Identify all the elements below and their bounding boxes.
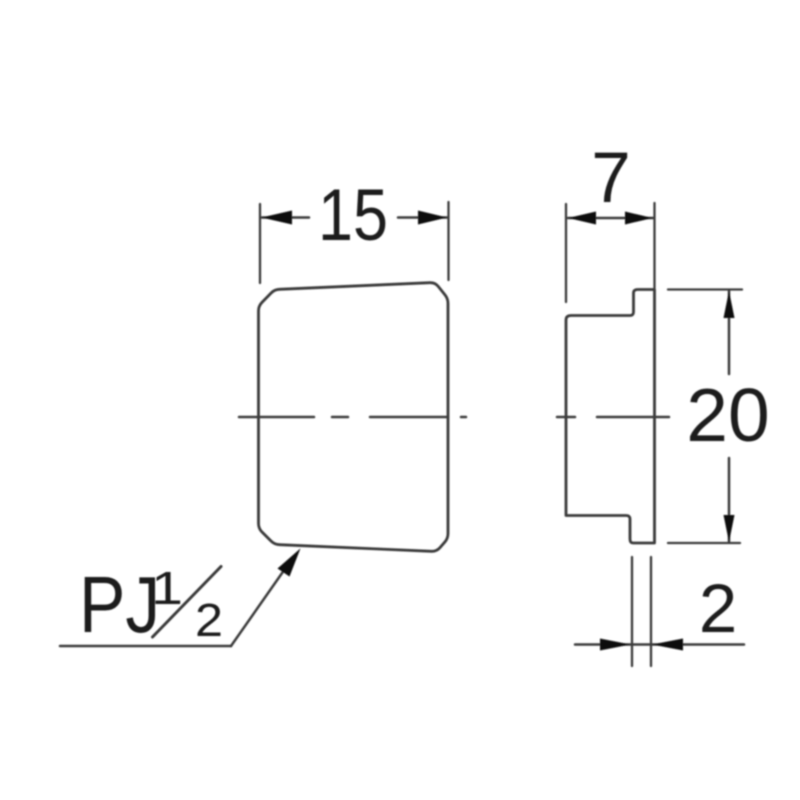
- dim7 left extension line: [565, 204, 567, 302]
- dim2 right extension line: [650, 557, 652, 666]
- dim7 right arrowhead: [625, 212, 653, 225]
- dim7 left arrowhead: [568, 212, 596, 225]
- svg-text:20: 20: [686, 373, 769, 457]
- dim20 dimension line lower segment: [728, 458, 731, 542]
- dim15 left arrowhead: [262, 211, 293, 225]
- dim2 left arrowhead pointing right: [600, 639, 631, 651]
- fraction slash of PJ half: [153, 567, 222, 638]
- dim15 dimension line right segment: [398, 216, 447, 219]
- front view center line dot: [461, 416, 466, 419]
- dim2 right arrowhead pointing left: [652, 639, 683, 651]
- svg-text:15: 15: [318, 175, 388, 256]
- leader arrowhead: [278, 548, 301, 576]
- dim20 up arrowhead: [724, 291, 735, 318]
- side view center line dash 2: [597, 416, 669, 419]
- leader underline of PJ half label: [60, 645, 231, 648]
- dim20 dimension line upper segment: [728, 291, 731, 374]
- svg-text:2: 2: [699, 570, 737, 647]
- dim15 left extension line: [259, 204, 261, 283]
- dim20 bottom extension line: [668, 542, 740, 544]
- dim15 right extension line: [447, 202, 449, 280]
- leader diagonal line: [231, 556, 294, 646]
- svg-text:2: 2: [195, 594, 223, 646]
- front view body outline: [259, 283, 449, 552]
- dim2 dimension line: [575, 643, 744, 646]
- dim7 dimension line: [568, 217, 653, 220]
- front view center line dash 2: [332, 416, 348, 419]
- svg-text:PJ: PJ: [79, 559, 160, 649]
- side view center line dash 1: [557, 416, 575, 419]
- svg-text:1: 1: [151, 562, 183, 614]
- front view center line dash 3: [370, 416, 448, 419]
- dim20 top extension line: [668, 288, 742, 290]
- dim15 dimension line left segment: [262, 216, 309, 219]
- side view profile outline: [566, 290, 655, 544]
- front view center line dash 1: [239, 416, 314, 419]
- dim20 down arrowhead: [724, 515, 735, 542]
- dim15 right arrowhead: [418, 211, 447, 225]
- dim2 left extension line: [631, 557, 633, 666]
- dim7 right extension line: [653, 203, 655, 288]
- svg-text:7: 7: [591, 139, 631, 218]
